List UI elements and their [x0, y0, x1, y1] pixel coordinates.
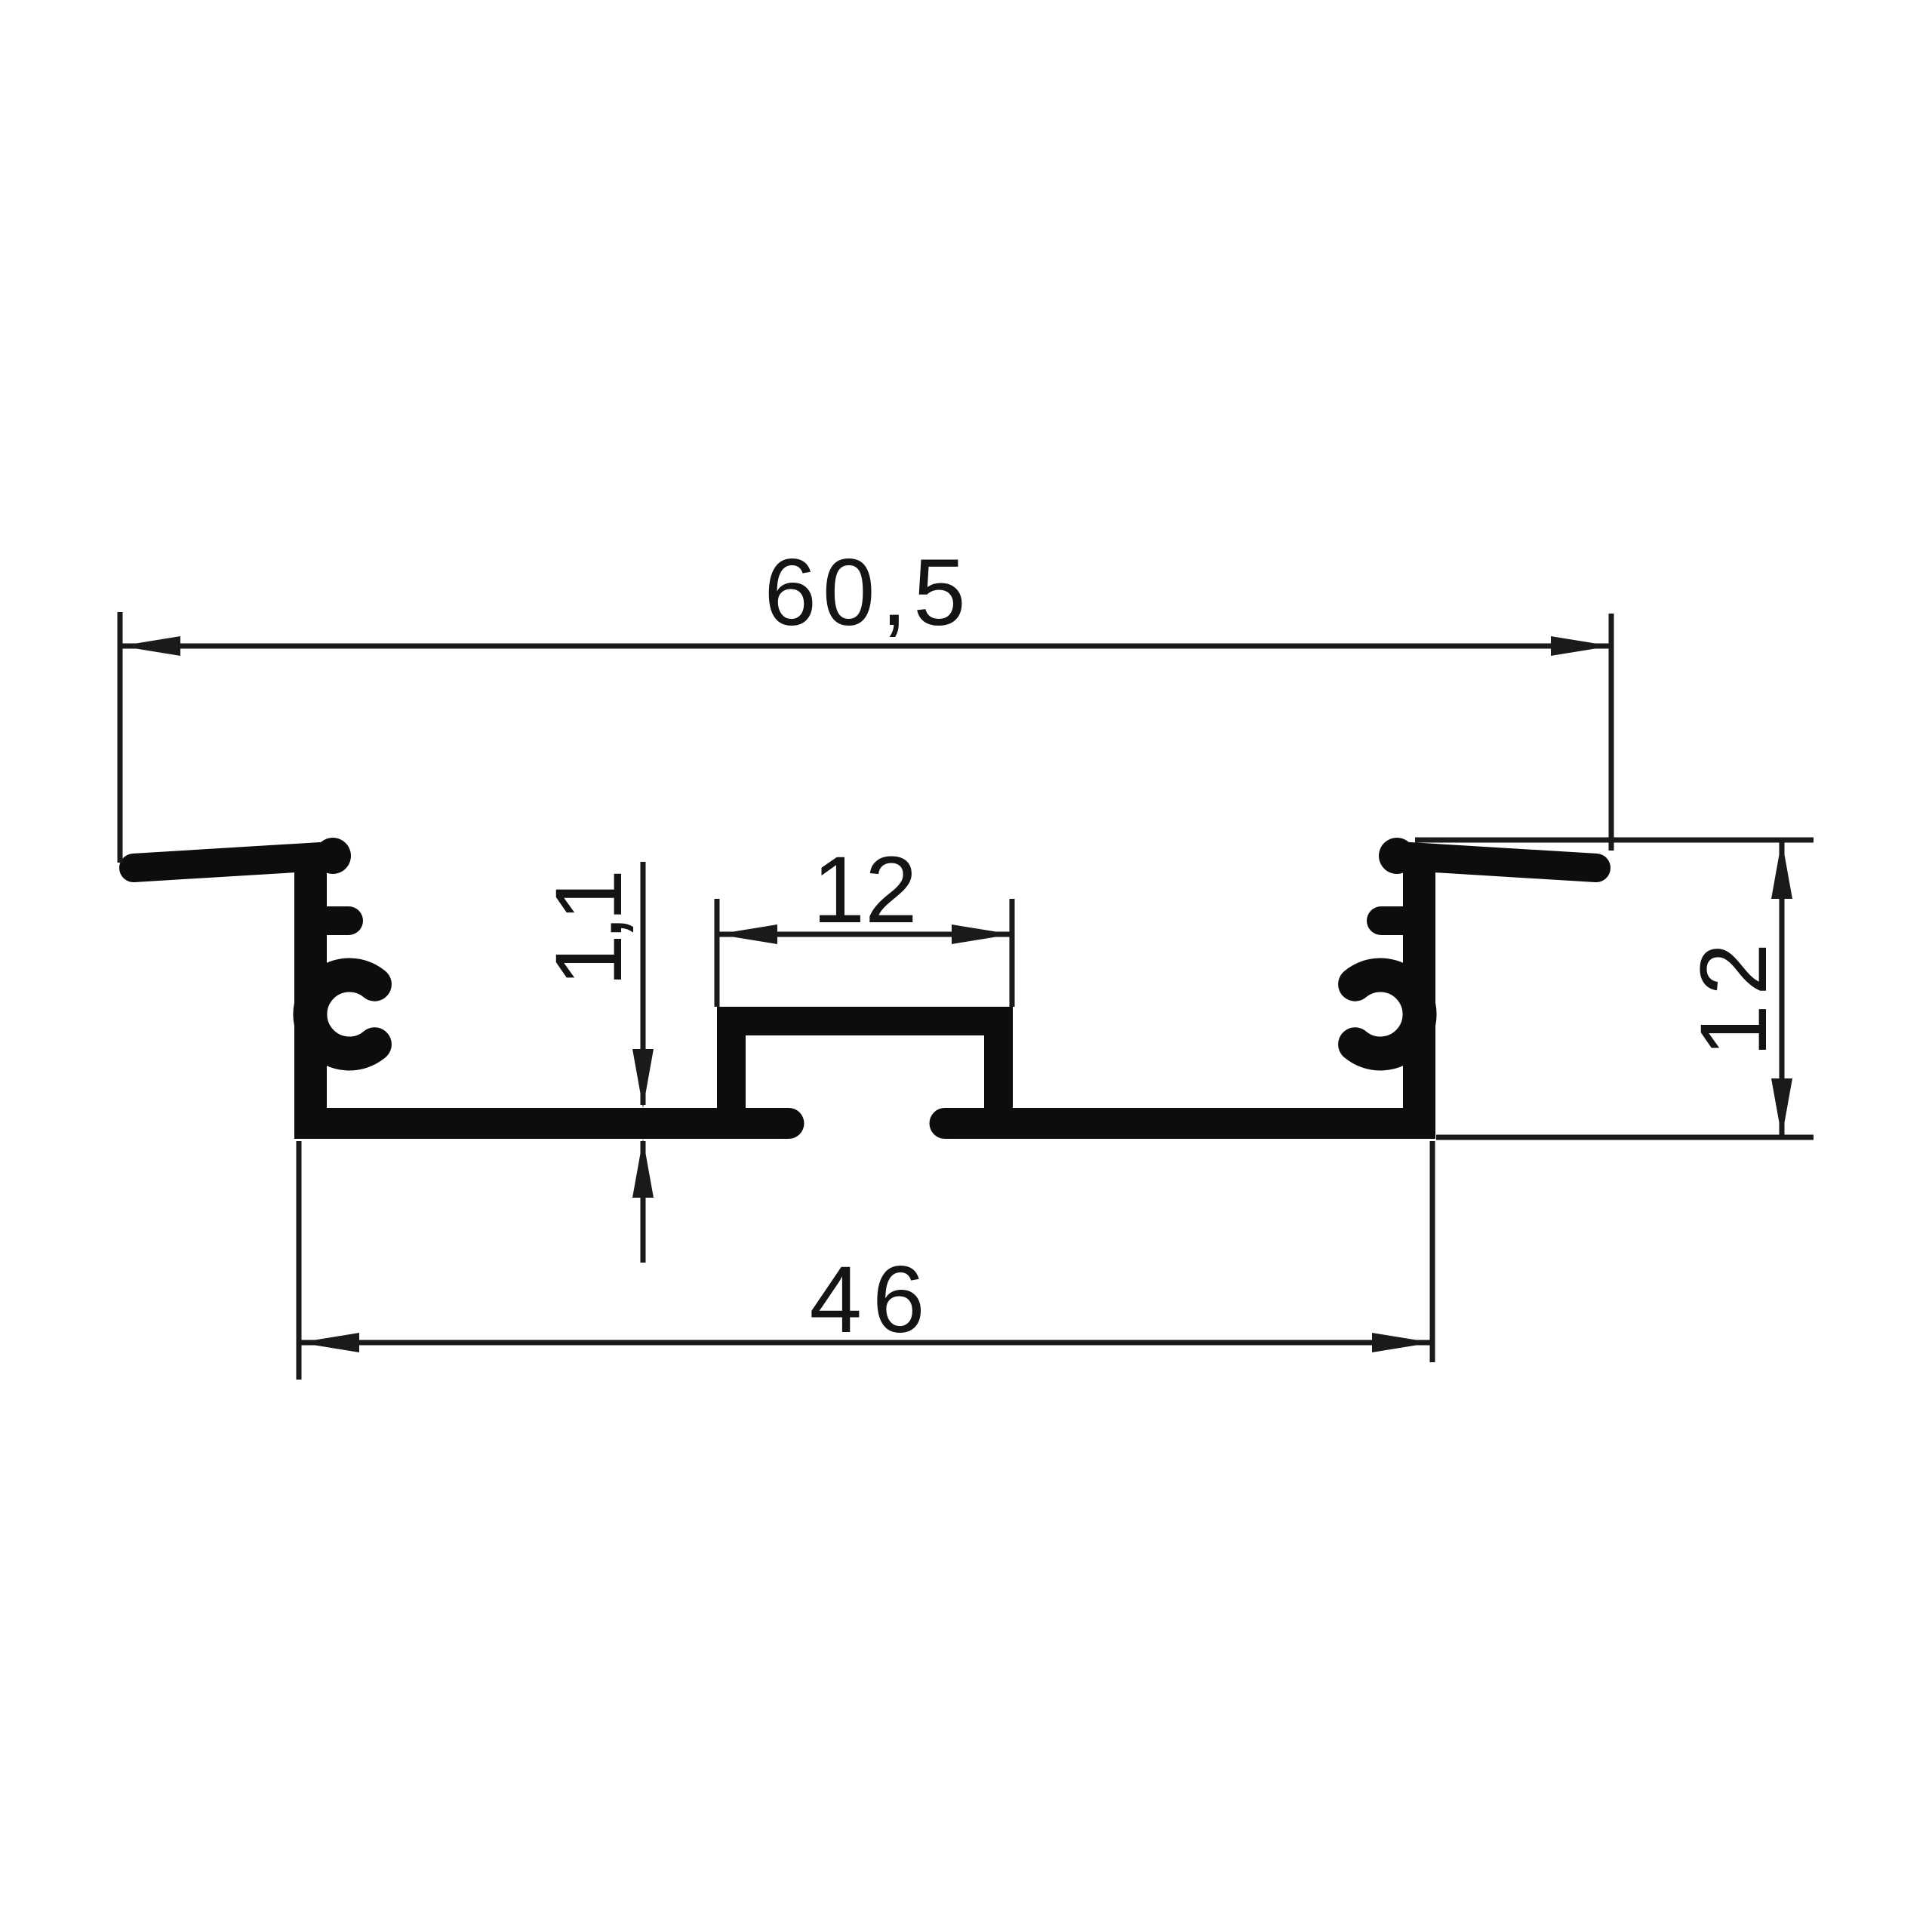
svg-text:1,1: 1,1	[537, 873, 641, 986]
svg-text:12: 12	[812, 838, 917, 943]
svg-text:12: 12	[1681, 934, 1786, 1057]
svg-text:46: 46	[809, 1247, 935, 1352]
svg-text:60,5: 60,5	[764, 540, 971, 645]
